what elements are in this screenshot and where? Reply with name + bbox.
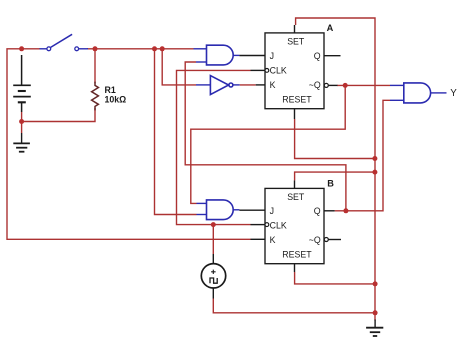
- AND gate U4 (output Y): [390, 83, 447, 103]
- wire inverter input net: [162, 49, 196, 85]
- Q-B stub: [324, 210, 335, 212]
- svg-text:Q: Q: [314, 206, 321, 216]
- wire Q-B to AND-Y bottom input: [335, 100, 390, 211]
- svg-text:K: K: [270, 235, 276, 245]
- switch S1: [40, 34, 89, 50]
- wire VCC rail left vertical and K-B rail: [7, 49, 251, 240]
- wire RESET-A to ground net: [295, 119, 375, 159]
- flip-flop U5 A: [251, 25, 329, 119]
- svg-text:RESET: RESET: [282, 95, 312, 105]
- svg-text:R1: R1: [105, 85, 116, 95]
- junction rail to inverter: [160, 46, 165, 51]
- junction RESET-B ground: [373, 281, 378, 286]
- svg-text:Y: Y: [450, 88, 457, 99]
- junction battery top: [19, 46, 24, 51]
- wire battery minus to R1 bottom: [22, 108, 95, 133]
- -Q-A stub: [328, 84, 337, 86]
- wire CLK net: [177, 70, 251, 224]
- wire AND2 output to J-B: [239, 209, 265, 211]
- wire VCC rail to AND2 bottom input: [155, 49, 197, 215]
- svg-text:10kΩ: 10kΩ: [105, 94, 127, 104]
- -Q-B stub: [328, 239, 341, 241]
- wire switch to AND1 top input: [87, 48, 194, 50]
- ground (battery): [13, 133, 30, 152]
- svg-text:SET: SET: [287, 192, 305, 202]
- ground (main): [366, 320, 383, 337]
- AND gate U1 (J-A input): [194, 45, 240, 65]
- wire AND1 output to J-A: [239, 55, 265, 57]
- junction R1 top: [93, 46, 98, 51]
- resistor R1: [92, 82, 99, 111]
- svg-text:Q: Q: [314, 51, 321, 61]
- flip-flop U6 B: [251, 180, 329, 272]
- wire R1 top lead: [94, 49, 96, 84]
- svg-text:A: A: [327, 23, 334, 33]
- svg-text:J: J: [270, 51, 274, 61]
- junction battery minus: [19, 119, 24, 124]
- AND gate U3 (J-B input): [197, 200, 240, 220]
- junction clock return ground: [373, 310, 378, 315]
- wire inverter output to K-A: [240, 84, 256, 86]
- clock source V2: [201, 254, 225, 299]
- wire RESET-B to ground net: [295, 272, 376, 284]
- wire Q-B feedback to AND1 bottom input: [185, 62, 346, 211]
- svg-text:CLK: CLK: [270, 221, 287, 231]
- wire clock source to CLK net: [212, 225, 214, 254]
- wire SET-A to ground vertical: [296, 18, 375, 321]
- svg-text:SET: SET: [287, 37, 305, 47]
- wire -Q-A to AND-Y top input: [337, 84, 390, 86]
- wire clock source bottom to ground net: [213, 299, 375, 313]
- svg-text:~Q: ~Q: [309, 80, 321, 90]
- svg-text:K: K: [270, 80, 276, 90]
- wire SET-B to ground net: [295, 172, 375, 180]
- battery V1: [13, 55, 31, 112]
- junction clock to CLK net: [211, 222, 216, 227]
- svg-text:CLK: CLK: [270, 66, 287, 76]
- wire battery plus to switch: [22, 48, 40, 50]
- inverter U2: [196, 76, 240, 95]
- svg-text:RESET: RESET: [282, 250, 312, 260]
- junction SET-B ground: [372, 170, 377, 175]
- junction -Q-A node: [343, 83, 348, 88]
- wire -Q-A feedback to AND2 top input: [191, 85, 345, 203]
- junction rail to AND2: [152, 46, 157, 51]
- junction Q-B node: [343, 208, 348, 213]
- junction RESET-A ground: [372, 156, 377, 161]
- Q-A stub: [324, 55, 341, 57]
- svg-text:~Q: ~Q: [309, 235, 321, 245]
- svg-text:B: B: [327, 178, 334, 188]
- svg-text:J: J: [270, 206, 274, 216]
